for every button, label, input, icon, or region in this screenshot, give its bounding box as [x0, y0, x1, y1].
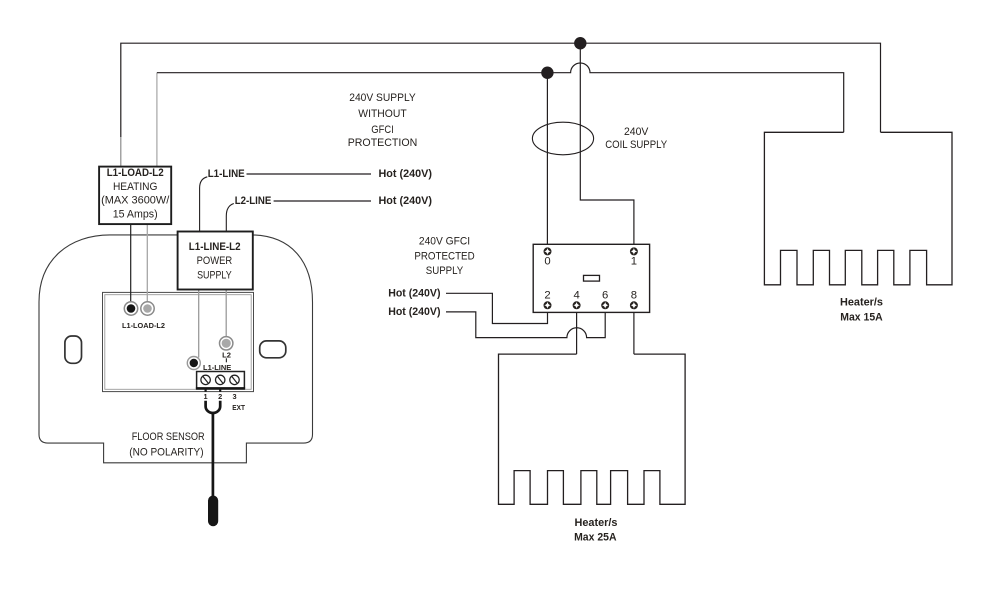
stub terminal 1: [205, 390, 207, 392]
svg-text:3: 3: [232, 392, 236, 401]
svg-text:Heater/s: Heater/s: [840, 297, 883, 309]
terminal L2 line (grey): [220, 337, 233, 350]
screw 2: [216, 375, 225, 384]
floor sensor cable: [212, 413, 215, 496]
relay screw pin 1: [630, 247, 638, 255]
wire load L1 (black) heating box to terminal: [130, 224, 132, 303]
junction dot J2: [541, 67, 553, 79]
wire J1 to relay pin 1: [580, 43, 634, 244]
svg-text:(MAX 3600W/: (MAX 3600W/: [101, 195, 170, 207]
relay screw pin 4: [573, 301, 581, 309]
wire relay pin 4 to heater 25A: [576, 312, 578, 354]
svg-text:6: 6: [602, 290, 608, 302]
svg-text:Max 25A: Max 25A: [574, 531, 616, 543]
svg-text:L1-LINE-L2: L1-LINE-L2: [189, 241, 241, 253]
mounting slot left: [65, 336, 82, 363]
svg-text:SUPPLY: SUPPLY: [426, 265, 464, 277]
wire L1-LINE to hot: [247, 173, 372, 175]
svg-text:1: 1: [631, 255, 637, 267]
wire rail2 left drop grey: [156, 73, 158, 167]
terminal L2-LOAD (grey): [141, 302, 154, 315]
heating load box: [99, 167, 171, 225]
svg-text:0: 0: [544, 255, 550, 267]
terminal strip: [197, 372, 245, 389]
relay screw pin 2: [544, 301, 552, 309]
svg-text:2: 2: [544, 290, 550, 302]
wire hot1 to relay pin 2: [446, 293, 548, 323]
heater 15A element: [764, 132, 952, 284]
wire J2 to relay pin 0: [546, 73, 548, 245]
svg-text:4: 4: [573, 290, 579, 302]
svg-text:Hot (240V): Hot (240V): [388, 306, 441, 318]
svg-text:GFCI: GFCI: [371, 124, 393, 136]
svg-text:WITHOUT: WITHOUT: [358, 108, 407, 120]
wire rail 1 top: [121, 43, 881, 137]
wire line L2 (grey) power box to terminal: [225, 289, 227, 338]
svg-text:HEATING: HEATING: [113, 181, 158, 193]
screw 1: [201, 375, 210, 384]
svg-text:L1-LINE: L1-LINE: [203, 363, 231, 372]
svg-text:L2-LINE: L2-LINE: [235, 195, 272, 207]
terminal L1-LOAD (black): [124, 302, 137, 315]
svg-text:L1-LINE: L1-LINE: [208, 168, 245, 180]
svg-text:240V: 240V: [624, 126, 649, 138]
floor sensor probe: [208, 496, 218, 527]
wire rail 2 with hop over coil wire: [157, 63, 844, 132]
leader L1-LINE to power box: [200, 177, 208, 232]
svg-text:240V SUPPLY: 240V SUPPLY: [349, 92, 416, 104]
svg-text:1: 1: [204, 392, 208, 401]
floor sensor cable U-loop: [206, 401, 221, 413]
relay box: [533, 244, 649, 312]
svg-text:2: 2: [218, 392, 222, 401]
terminal compartment (double border): [103, 292, 254, 391]
svg-text:Heater/s: Heater/s: [575, 517, 618, 529]
svg-text:8: 8: [631, 290, 637, 302]
svg-text:L1-LOAD-L2: L1-LOAD-L2: [107, 167, 164, 179]
svg-text:COIL SUPPLY: COIL SUPPLY: [605, 139, 668, 151]
coil sensing ellipse: [532, 122, 593, 155]
terminal L1-LINE (black): [187, 357, 200, 370]
screw 3: [230, 375, 239, 384]
svg-text:EXT: EXT: [232, 405, 245, 412]
svg-text:FLOOR SENSOR: FLOOR SENSOR: [132, 431, 205, 443]
svg-text:L1-LOAD-L2: L1-LOAD-L2: [122, 321, 165, 330]
relay jumper: [584, 275, 600, 281]
svg-text:Hot (240V): Hot (240V): [388, 287, 441, 299]
thermostat body outline: [39, 235, 313, 463]
wire hot2 to relay pin 6 with hop over pin4 wire: [446, 312, 605, 338]
power supply box: [178, 232, 253, 290]
wire L2-LINE to hot: [274, 200, 371, 202]
svg-text:POWER: POWER: [197, 255, 233, 267]
relay screw pin 6: [601, 301, 609, 309]
wire relay pin 8 to heater 25A: [633, 312, 635, 354]
stub terminal 2: [219, 390, 221, 392]
svg-text:PROTECTION: PROTECTION: [348, 137, 418, 149]
wire rail1 left drop grey part: [120, 137, 122, 167]
svg-text:15 Amps): 15 Amps): [113, 209, 158, 221]
mounting slot right: [260, 341, 286, 358]
junction dot J1: [574, 37, 586, 49]
svg-text:Hot (240V): Hot (240V): [379, 195, 433, 207]
svg-text:Max 15A: Max 15A: [840, 311, 882, 323]
wire load L2 (grey) heating box to terminal: [146, 224, 148, 303]
leader L2-LINE to power box: [226, 204, 234, 232]
svg-text:L2: L2: [222, 350, 231, 359]
relay screw pin 8: [630, 301, 638, 309]
wire line L1 (grey) power box to terminal: [198, 289, 200, 358]
svg-text:PROTECTED: PROTECTED: [414, 251, 474, 263]
svg-text:(NO POLARITY): (NO POLARITY): [129, 447, 203, 459]
tick below L2: [225, 358, 227, 362]
heater 25A element: [499, 354, 686, 504]
svg-text:240V GFCI: 240V GFCI: [419, 236, 470, 248]
relay screw pin 0: [544, 247, 552, 255]
svg-text:SUPPLY: SUPPLY: [197, 269, 232, 281]
svg-text:Hot (240V): Hot (240V): [379, 168, 433, 180]
